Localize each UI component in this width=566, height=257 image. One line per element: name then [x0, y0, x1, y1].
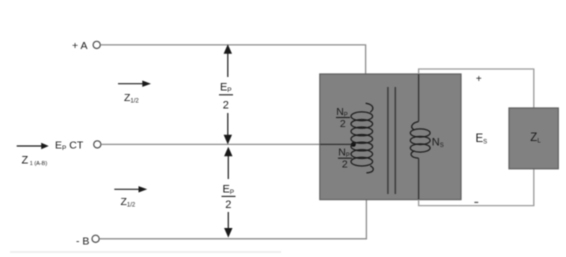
svg-text:+: + [476, 74, 482, 85]
dimension arrowhead down [224, 228, 232, 238]
dimension Ep/2 bottom shaft [227, 153, 229, 180]
wire B inside box [365, 173, 367, 200]
svg-text:2: 2 [342, 158, 348, 170]
load ZL body [509, 108, 558, 169]
terminal A [93, 41, 100, 48]
wire A inside box [365, 74, 367, 104]
svg-text:2: 2 [340, 118, 346, 130]
dimension arrowhead up [224, 44, 232, 54]
secondary wire bottom loop [419, 169, 534, 206]
input arrow [17, 145, 42, 147]
wire from B to transformer [99, 200, 366, 239]
secondary winding Ns [410, 122, 430, 159]
impedance arrow Z1/2 bottom [114, 188, 139, 190]
wire CT to box [101, 143, 320, 145]
wire from A to transformer [101, 45, 366, 74]
core [387, 87, 389, 194]
svg-text:2: 2 [225, 199, 231, 211]
secondary wire top loop [419, 69, 534, 108]
secondary wire inside box bottom [418, 158, 420, 199]
center tap junction dot [351, 142, 356, 147]
dimension Ep/2 top shaft [227, 50, 229, 77]
impedance arrow Z1/2 top [118, 83, 143, 85]
primary winding Np [351, 103, 373, 173]
svg-text:+ A: + A [72, 40, 87, 52]
secondary wire inside box top [418, 74, 420, 122]
faint artifact line [10, 251, 281, 253]
svg-text:- B: - B [76, 235, 89, 247]
dimension arrowhead down [224, 135, 232, 145]
dimension arrowhead up [224, 147, 232, 157]
wire CT inside box to tap [320, 143, 352, 145]
svg-text:2: 2 [223, 99, 229, 111]
terminal B [92, 235, 99, 242]
transformer T1 body [320, 74, 461, 200]
terminal CT [94, 141, 101, 148]
polarity - [474, 201, 478, 203]
svg-text:EP CT: EP CT [55, 139, 84, 152]
